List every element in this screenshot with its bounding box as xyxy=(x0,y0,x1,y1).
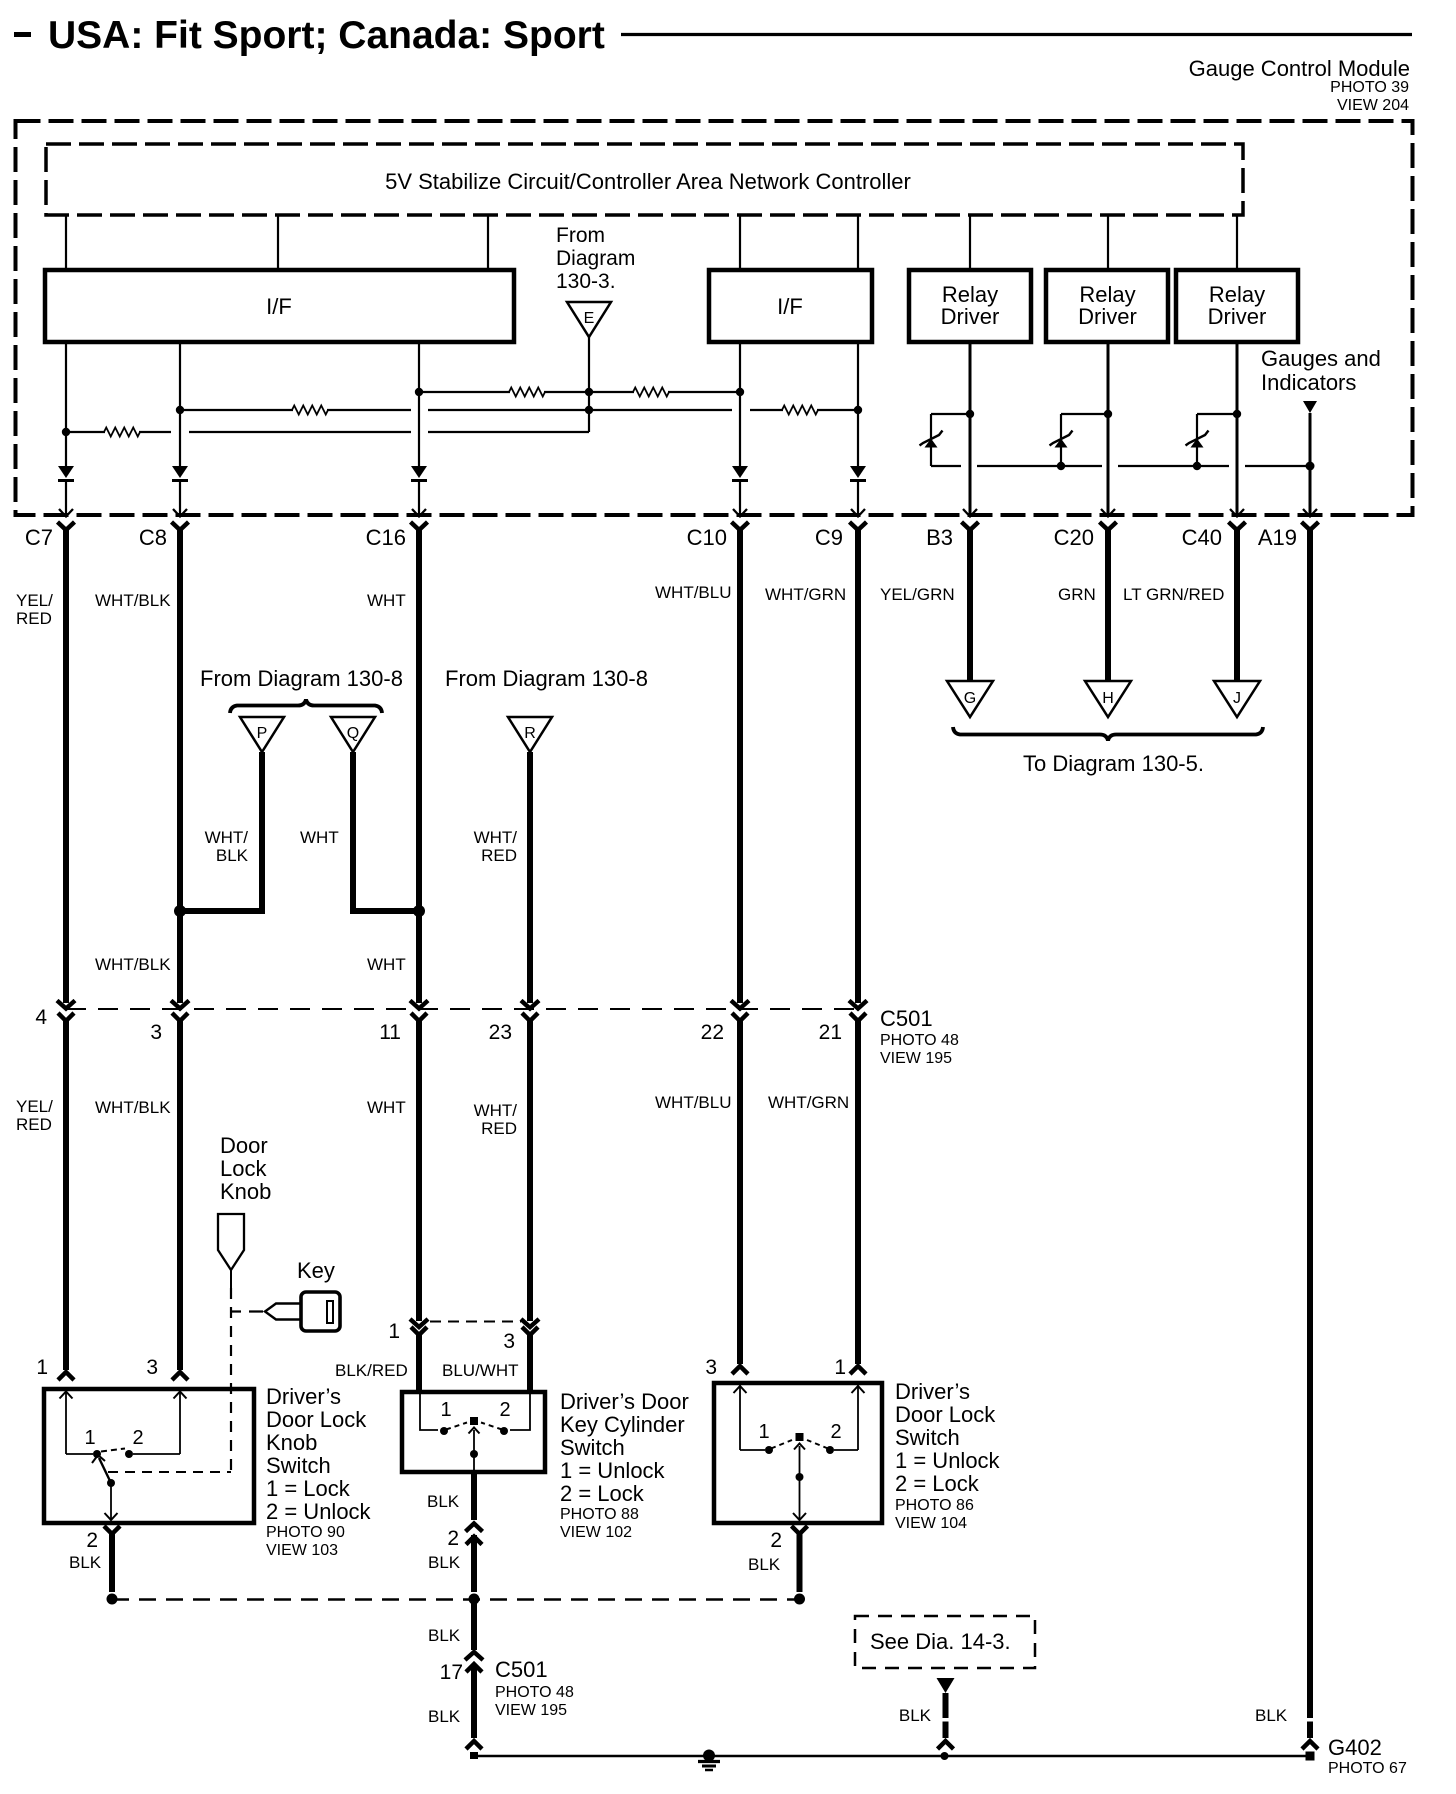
svg-text:J: J xyxy=(1233,690,1241,707)
svg-text:G: G xyxy=(964,690,976,707)
svg-text:From Diagram 130-8: From Diagram 130-8 xyxy=(200,666,403,691)
svg-text:Q: Q xyxy=(347,725,359,742)
svg-text:VIEW 195: VIEW 195 xyxy=(495,1702,567,1719)
svg-text:YEL/: YEL/ xyxy=(16,1097,53,1116)
svg-text:WHT: WHT xyxy=(367,955,406,974)
svg-text:PHOTO 48: PHOTO 48 xyxy=(880,1032,959,1049)
svg-text:C501: C501 xyxy=(880,1006,933,1031)
svg-text:Switch: Switch xyxy=(560,1435,625,1460)
svg-text:WHT/BLU: WHT/BLU xyxy=(655,583,732,602)
svg-text:I/F: I/F xyxy=(777,294,803,319)
svg-text:23: 23 xyxy=(489,1021,512,1044)
svg-text:2: 2 xyxy=(86,1529,98,1552)
svg-text:C8: C8 xyxy=(139,525,167,550)
svg-text:22: 22 xyxy=(701,1021,724,1044)
svg-text:C501: C501 xyxy=(495,1657,548,1682)
svg-text:VIEW 204: VIEW 204 xyxy=(1337,97,1409,114)
svg-text:21: 21 xyxy=(819,1021,842,1044)
svg-text:BLK: BLK xyxy=(1255,1706,1288,1725)
svg-text:2 = Lock: 2 = Lock xyxy=(560,1481,645,1506)
svg-text:Driver’s: Driver’s xyxy=(895,1379,970,1404)
svg-text:WHT: WHT xyxy=(300,828,339,847)
svg-text:1: 1 xyxy=(84,1427,95,1449)
svg-text:C16: C16 xyxy=(366,525,406,550)
svg-text:BLK: BLK xyxy=(427,1492,460,1511)
svg-text:Door: Door xyxy=(220,1133,268,1158)
svg-text:1: 1 xyxy=(440,1399,451,1421)
svg-text:Diagram: Diagram xyxy=(556,247,635,270)
svg-text:C20: C20 xyxy=(1054,525,1094,550)
svg-text:1: 1 xyxy=(834,1356,846,1379)
svg-text:Driver: Driver xyxy=(1078,304,1137,329)
svg-text:RED: RED xyxy=(481,846,517,865)
svg-text:C7: C7 xyxy=(25,525,53,550)
svg-text:1: 1 xyxy=(388,1320,400,1343)
svg-text:2: 2 xyxy=(132,1427,143,1449)
svg-text:Door Lock: Door Lock xyxy=(895,1402,996,1427)
svg-text:WHT/: WHT/ xyxy=(205,828,249,847)
svg-text:A19: A19 xyxy=(1258,525,1297,550)
svg-text:GRN: GRN xyxy=(1058,585,1096,604)
svg-text:WHT/BLK: WHT/BLK xyxy=(95,955,171,974)
svg-text:1 = Unlock: 1 = Unlock xyxy=(895,1448,1001,1473)
svg-text:Switch: Switch xyxy=(266,1453,331,1478)
svg-text:2: 2 xyxy=(447,1527,459,1550)
svg-text:G402: G402 xyxy=(1328,1735,1382,1760)
svg-text:17: 17 xyxy=(440,1661,463,1684)
svg-text:Knob: Knob xyxy=(220,1179,271,1204)
svg-text:Door Lock: Door Lock xyxy=(266,1407,367,1432)
svg-text:3: 3 xyxy=(146,1356,158,1379)
svg-text:2: 2 xyxy=(770,1529,782,1552)
svg-text:VIEW 102: VIEW 102 xyxy=(560,1524,632,1541)
svg-text:1 = Lock: 1 = Lock xyxy=(266,1476,351,1501)
svg-text:Driver: Driver xyxy=(1208,304,1267,329)
svg-text:RED: RED xyxy=(16,609,52,628)
svg-text:WHT/BLK: WHT/BLK xyxy=(95,591,171,610)
svg-text:Driver: Driver xyxy=(941,304,1000,329)
svg-text:C40: C40 xyxy=(1182,525,1222,550)
svg-text:WHT/BLU: WHT/BLU xyxy=(655,1093,732,1112)
svg-text:From Diagram 130-8: From Diagram 130-8 xyxy=(445,666,648,691)
svg-text:2: 2 xyxy=(830,1421,841,1443)
svg-text:YEL/: YEL/ xyxy=(16,591,53,610)
svg-text:3: 3 xyxy=(150,1021,162,1044)
svg-text:H: H xyxy=(1102,690,1114,707)
svg-text:BLU/WHT: BLU/WHT xyxy=(442,1361,519,1380)
svg-text:Knob: Knob xyxy=(266,1430,317,1455)
svg-text:BLK: BLK xyxy=(428,1707,461,1726)
svg-text:VIEW 103: VIEW 103 xyxy=(266,1542,338,1559)
svg-text:4: 4 xyxy=(35,1006,47,1029)
svg-text:Driver’s Door: Driver’s Door xyxy=(560,1389,689,1414)
svg-text:1 = Unlock: 1 = Unlock xyxy=(560,1458,666,1483)
svg-text:BLK: BLK xyxy=(69,1553,102,1572)
svg-text:Key: Key xyxy=(297,1258,335,1283)
svg-text:11: 11 xyxy=(379,1021,401,1044)
svg-text:WHT/GRN: WHT/GRN xyxy=(768,1093,849,1112)
svg-text:Driver’s: Driver’s xyxy=(266,1384,341,1409)
svg-text:130-3.: 130-3. xyxy=(556,270,616,293)
svg-text:Gauges and: Gauges and xyxy=(1261,346,1381,371)
svg-text:2 = Lock: 2 = Lock xyxy=(895,1471,980,1496)
svg-text:WHT/GRN: WHT/GRN xyxy=(765,585,846,604)
svg-text:RED: RED xyxy=(16,1115,52,1134)
svg-text:BLK/RED: BLK/RED xyxy=(335,1361,408,1380)
svg-text:5V Stabilize Circuit/Controlle: 5V Stabilize Circuit/Controller Area Net… xyxy=(385,169,911,194)
svg-text:2: 2 xyxy=(499,1399,510,1421)
svg-text:C10: C10 xyxy=(687,525,727,550)
svg-text:WHT: WHT xyxy=(367,591,406,610)
svg-text:3: 3 xyxy=(503,1330,515,1353)
svg-text:BLK: BLK xyxy=(899,1706,932,1725)
svg-text:3: 3 xyxy=(705,1356,717,1379)
svg-text:Key Cylinder: Key Cylinder xyxy=(560,1412,685,1437)
svg-text:BLK: BLK xyxy=(748,1555,781,1574)
svg-text:Gauge Control Module: Gauge Control Module xyxy=(1189,56,1410,81)
svg-text:Lock: Lock xyxy=(220,1156,267,1181)
svg-text:To Diagram 130-5.: To Diagram 130-5. xyxy=(1023,751,1204,776)
svg-text:PHOTO 67: PHOTO 67 xyxy=(1328,1760,1407,1777)
svg-text:PHOTO 90: PHOTO 90 xyxy=(266,1524,345,1541)
svg-text:Switch: Switch xyxy=(895,1425,960,1450)
svg-text:2 = Unlock: 2 = Unlock xyxy=(266,1499,372,1524)
svg-text:RED: RED xyxy=(481,1119,517,1138)
svg-text:YEL/GRN: YEL/GRN xyxy=(880,585,955,604)
svg-text:E: E xyxy=(584,310,595,327)
svg-text:PHOTO 86: PHOTO 86 xyxy=(895,1497,974,1514)
svg-text:1: 1 xyxy=(36,1356,48,1379)
svg-text:1: 1 xyxy=(758,1421,769,1443)
svg-text:P: P xyxy=(257,725,268,742)
svg-text:WHT/: WHT/ xyxy=(474,1101,518,1120)
svg-text:PHOTO 48: PHOTO 48 xyxy=(495,1684,574,1701)
svg-text:B3: B3 xyxy=(926,525,953,550)
svg-text:From: From xyxy=(556,224,605,247)
svg-text:WHT/: WHT/ xyxy=(474,828,518,847)
svg-text:VIEW 104: VIEW 104 xyxy=(895,1515,967,1532)
svg-text:I/F: I/F xyxy=(266,294,292,319)
svg-text:PHOTO 39: PHOTO 39 xyxy=(1330,79,1409,96)
svg-text:See Dia. 14-3.: See Dia. 14-3. xyxy=(870,1629,1011,1654)
svg-text:WHT/BLK: WHT/BLK xyxy=(95,1098,171,1117)
svg-text:C9: C9 xyxy=(815,525,843,550)
svg-text:Indicators: Indicators xyxy=(1261,370,1356,395)
svg-text:WHT: WHT xyxy=(367,1098,406,1117)
svg-text:BLK: BLK xyxy=(428,1553,461,1572)
svg-text:USA: Fit Sport; Canada: Sport: USA: Fit Sport; Canada: Sport xyxy=(48,14,605,57)
svg-text:PHOTO 88: PHOTO 88 xyxy=(560,1506,639,1523)
svg-text:R: R xyxy=(524,725,536,742)
svg-text:BLK: BLK xyxy=(428,1626,461,1645)
svg-text:VIEW 195: VIEW 195 xyxy=(880,1050,952,1067)
svg-text:BLK: BLK xyxy=(216,846,249,865)
svg-text:LT GRN/RED: LT GRN/RED xyxy=(1123,585,1224,604)
